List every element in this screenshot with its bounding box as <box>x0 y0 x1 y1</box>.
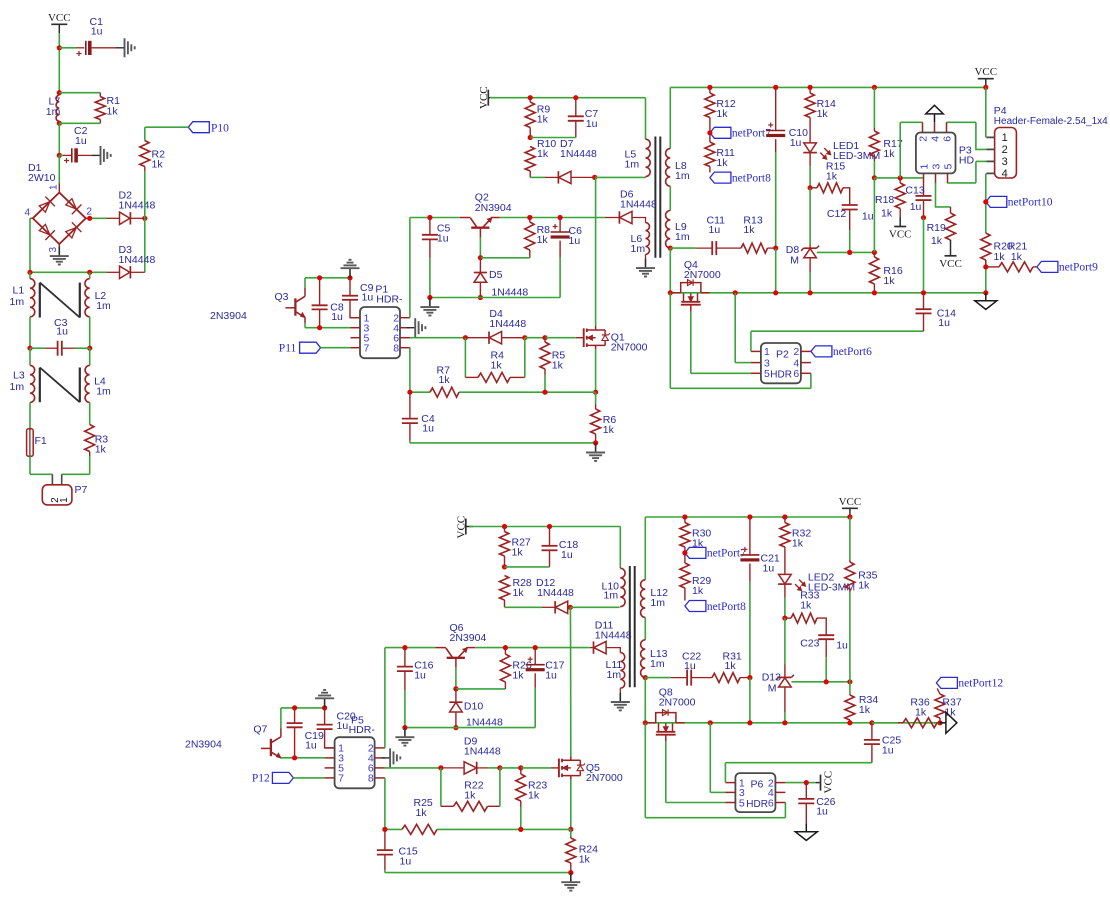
node junction <box>707 85 712 90</box>
node junction <box>87 346 92 351</box>
svg-text:L3: L3 <box>13 370 25 382</box>
svg-text:1N4448: 1N4448 <box>119 200 156 212</box>
capacitor C14 <box>916 293 957 331</box>
connector P7 <box>42 474 87 505</box>
wire <box>58 155 60 183</box>
wire <box>570 606 619 608</box>
svg-text:5: 5 <box>739 797 745 809</box>
capacitor C5 <box>422 218 451 298</box>
capacitor C1 <box>59 16 116 56</box>
node junction <box>847 514 852 519</box>
svg-text:1u: 1u <box>938 317 950 329</box>
node junction <box>528 135 533 140</box>
svg-text:1u: 1u <box>56 326 68 338</box>
svg-text:netPort6: netPort6 <box>833 346 872 358</box>
svg-text:1m: 1m <box>675 170 690 182</box>
node junction <box>747 720 752 725</box>
svg-text:R19: R19 <box>927 222 946 234</box>
resistor R33 <box>785 590 826 635</box>
svg-text:1k: 1k <box>537 148 549 160</box>
node junction <box>872 85 877 90</box>
svg-text:VCC: VCC <box>823 771 835 794</box>
svg-text:1k: 1k <box>95 444 107 456</box>
wire Q8 rail <box>645 722 940 724</box>
svg-text:1m: 1m <box>604 590 619 602</box>
power flag VCC (top-right) <box>974 66 997 87</box>
wire Q5 source <box>570 780 572 830</box>
capacitor C8 <box>312 278 344 328</box>
svg-text:3: 3 <box>48 247 59 253</box>
wire <box>30 456 52 474</box>
wire Q1 drain <box>595 177 597 326</box>
wire P3 pin2/pin6 net <box>900 122 986 178</box>
resistor R6 <box>591 392 617 443</box>
wire D8 net <box>809 188 811 245</box>
capacitor C16 <box>397 648 434 728</box>
svg-text:1N4448: 1N4448 <box>119 254 156 266</box>
ground at L11 <box>611 688 630 710</box>
transistor Q3 2N3904 <box>275 288 306 323</box>
svg-text:1u: 1u <box>882 745 894 757</box>
svg-text:1k: 1k <box>528 790 540 802</box>
svg-text:6: 6 <box>768 797 774 809</box>
svg-text:1u: 1u <box>362 292 374 304</box>
node junction <box>542 335 547 340</box>
resistor R17 <box>869 87 902 177</box>
diode D4 <box>465 308 526 344</box>
svg-text:3: 3 <box>1002 156 1008 168</box>
svg-text:Header-Female-2.54_1x4: Header-Female-2.54_1x4 <box>994 116 1108 127</box>
svg-text:1k: 1k <box>792 538 804 550</box>
ground (rotated) at C2 <box>92 146 111 165</box>
wire Q3 rail <box>305 277 350 279</box>
svg-text:L1: L1 <box>13 285 25 297</box>
diode D5 <box>474 258 529 299</box>
node junction <box>27 346 32 351</box>
node junction <box>533 645 538 650</box>
capacitor C22 <box>671 651 703 686</box>
svg-text:1k: 1k <box>883 148 895 160</box>
wire D13 net <box>784 618 786 664</box>
svg-text:C12: C12 <box>827 208 846 220</box>
svg-text:C23: C23 <box>800 638 819 650</box>
resistor R31 <box>703 651 750 683</box>
resistor R19 <box>927 207 956 256</box>
resistor R34 <box>845 682 878 723</box>
node junction <box>518 765 523 770</box>
node junction <box>568 827 573 832</box>
ground (rotated) at P5 pin4 <box>382 748 401 767</box>
wire <box>645 98 647 140</box>
node junction <box>528 95 533 100</box>
node junction <box>593 390 598 395</box>
inductor L3 <box>10 348 35 429</box>
node junction <box>782 514 787 519</box>
svg-text:1N4448: 1N4448 <box>464 746 501 758</box>
svg-text:netPort10: netPort10 <box>1008 197 1053 209</box>
resistor R13 <box>731 215 776 254</box>
svg-text:HDR-: HDR- <box>376 294 403 306</box>
node junction <box>573 95 578 100</box>
svg-text:1k: 1k <box>603 424 615 436</box>
node junction <box>453 686 458 691</box>
node junction <box>503 645 508 650</box>
connector P6 <box>725 773 785 812</box>
wire P5 pin2 riser <box>384 648 386 748</box>
wire P6 pin2 net <box>785 782 815 784</box>
wire VCC rail <box>490 97 646 99</box>
ground at C5 <box>420 298 439 316</box>
power flag VCC (bottom-right) <box>839 496 862 517</box>
wire bottom <box>410 442 596 444</box>
resistor R25 <box>402 797 437 834</box>
resistor R18 <box>875 178 905 220</box>
svg-text:1m: 1m <box>607 669 622 681</box>
fuse F1 <box>27 429 47 457</box>
resistor R36 <box>872 697 940 728</box>
value 2N3904 (Q3) <box>210 310 247 322</box>
svg-text:1u: 1u <box>561 549 573 561</box>
svg-text:P7: P7 <box>75 484 88 496</box>
svg-text:Q7: Q7 <box>253 724 267 736</box>
connector P4 <box>986 105 1108 180</box>
connector P5 <box>325 715 385 789</box>
node junction <box>463 335 468 340</box>
svg-text:D10: D10 <box>464 701 483 713</box>
zener diode D13 <box>762 664 794 723</box>
node junction <box>983 85 988 90</box>
svg-text:1: 1 <box>764 346 770 358</box>
inductor L11 <box>606 653 625 689</box>
diode D11 <box>590 620 632 654</box>
wire bottom rail <box>430 297 560 299</box>
svg-text:1m: 1m <box>46 106 61 118</box>
svg-text:1m: 1m <box>675 231 690 243</box>
wire <box>58 123 60 155</box>
resistor R21 <box>986 241 1037 272</box>
svg-text:1k: 1k <box>743 224 755 236</box>
wire top rail <box>645 516 850 518</box>
resistor R3 <box>85 425 109 457</box>
svg-text:7: 7 <box>338 773 344 785</box>
transistor Q8 2N7000 (rotated) <box>645 687 695 742</box>
ground at bridge pin3 <box>50 244 69 265</box>
svg-text:1k: 1k <box>931 235 943 247</box>
node junction <box>682 550 687 555</box>
resistor R32 <box>780 517 811 574</box>
resistor R29 <box>680 553 712 601</box>
svg-text:M: M <box>790 255 799 267</box>
inductor L12 <box>641 580 668 618</box>
svg-text:6: 6 <box>793 368 799 380</box>
node junction <box>668 290 673 295</box>
capacitor C6 (polarized) <box>551 218 582 298</box>
svg-text:1u: 1u <box>437 233 449 245</box>
svg-text:1u: 1u <box>836 640 848 652</box>
svg-text:1m: 1m <box>96 300 111 312</box>
wire Q8 gate to P6 pin5 <box>666 742 726 803</box>
node junction <box>402 725 407 730</box>
inductor L8 <box>666 149 690 187</box>
wire to gate <box>521 767 551 769</box>
wire <box>645 677 671 679</box>
connector P1 <box>351 284 411 359</box>
net port netPort9 <box>1037 261 1098 273</box>
capacitor C18 <box>505 527 579 567</box>
wire <box>144 218 146 272</box>
svg-text:P2: P2 <box>776 348 789 360</box>
node junction <box>57 45 62 50</box>
svg-text:1k: 1k <box>512 547 524 559</box>
node junction <box>438 765 443 770</box>
resistor R1 <box>59 93 120 124</box>
wire pin6 net <box>410 337 465 339</box>
wire Q6 rail <box>385 647 590 649</box>
node junction <box>782 720 787 725</box>
node junction <box>502 524 507 529</box>
node junction <box>643 675 648 680</box>
capacitor C3 <box>30 317 90 356</box>
wire D10 rail <box>405 727 535 729</box>
svg-text:VCC: VCC <box>974 66 997 78</box>
wire Q4 gate to P2 pin5 <box>691 312 751 373</box>
transistor Q4 2N7000 (rotated) <box>670 259 721 312</box>
svg-text:M: M <box>768 683 777 695</box>
node junction <box>747 514 752 519</box>
wire <box>669 87 671 148</box>
svg-text:1u: 1u <box>545 670 557 682</box>
zener diode D8 <box>786 244 819 293</box>
svg-text:1k: 1k <box>915 707 927 719</box>
wire <box>305 323 351 328</box>
wire <box>669 248 671 293</box>
node junction <box>347 275 352 280</box>
ground (rotated) at P1 pin4 <box>407 318 426 337</box>
node junction <box>317 325 322 330</box>
svg-text:VCC: VCC <box>839 496 862 508</box>
wire P4 pin4 riser <box>985 173 987 292</box>
svg-text:HDR: HDR <box>746 799 768 810</box>
svg-text:1k: 1k <box>464 790 476 802</box>
svg-text:1u: 1u <box>684 660 696 672</box>
wire Q1 source <box>595 349 597 392</box>
svg-text:1m: 1m <box>631 243 646 255</box>
connector P3 <box>916 122 975 183</box>
wire C25 to P6 pin1 <box>725 763 872 783</box>
wire R7 rail <box>410 391 596 393</box>
node junction <box>497 765 502 770</box>
capacitor C23 <box>800 635 848 682</box>
svg-text:1k: 1k <box>491 360 503 372</box>
capacitor C13 <box>905 183 931 217</box>
svg-text:1u: 1u <box>790 137 802 149</box>
inductor L1 <box>10 272 35 348</box>
wire <box>749 678 751 723</box>
node junction <box>847 720 852 725</box>
svg-text:1k: 1k <box>716 108 728 120</box>
wire VCC rail <box>469 526 620 528</box>
net port netPort6 <box>811 346 872 358</box>
transformer core T3 <box>655 137 660 258</box>
wire bottom rail <box>670 292 986 294</box>
svg-text:1k: 1k <box>725 660 737 672</box>
svg-text:1k: 1k <box>817 108 829 120</box>
wire P5 pin8 riser <box>384 778 386 830</box>
svg-text:4: 4 <box>929 136 941 142</box>
wire <box>644 617 646 639</box>
svg-text:VCC: VCC <box>478 86 490 109</box>
wire <box>293 777 324 779</box>
wire <box>669 186 671 210</box>
wire <box>321 347 351 349</box>
svg-text:1k: 1k <box>716 157 728 169</box>
wire <box>30 271 90 273</box>
LED LED2 <box>778 572 855 619</box>
svg-text:1N4448: 1N4448 <box>466 717 503 729</box>
node junction <box>57 90 62 95</box>
capacitor C7 <box>530 98 598 138</box>
inductor L6 <box>631 223 650 255</box>
svg-text:1k: 1k <box>800 600 812 612</box>
svg-text:P6: P6 <box>751 778 764 790</box>
resistor R28 <box>500 576 532 608</box>
svg-text:1m: 1m <box>625 159 640 171</box>
svg-text:P12: P12 <box>252 773 270 785</box>
node junction <box>547 524 552 529</box>
port P10 <box>188 122 229 135</box>
node junction <box>869 720 874 725</box>
wire mid rail <box>874 177 923 179</box>
svg-text:HDR-: HDR- <box>349 724 376 736</box>
svg-text:1: 1 <box>918 164 930 170</box>
svg-text:1k: 1k <box>537 114 549 126</box>
svg-text:netPort9: netPort9 <box>1059 262 1098 274</box>
node junction <box>87 216 92 221</box>
power flag VCC (down, at R19) <box>939 256 962 270</box>
wire Q5 drain <box>569 607 571 756</box>
svg-text:2N3904: 2N3904 <box>450 632 487 644</box>
transistor Q2 2N3904 <box>460 192 512 238</box>
svg-text:4: 4 <box>25 208 31 219</box>
inductor L5 <box>625 139 651 177</box>
svg-text:6: 6 <box>941 136 953 142</box>
wire P6 pin3 riser <box>710 723 725 793</box>
node junction <box>558 215 563 220</box>
net port netPort8 <box>710 172 771 184</box>
transistor Q6 2N3904 <box>436 622 487 668</box>
wire Q7 rail <box>281 707 325 709</box>
svg-text:1u: 1u <box>709 224 721 236</box>
connector P2 <box>751 343 811 383</box>
svg-text:1m: 1m <box>96 386 111 398</box>
svg-text:R18: R18 <box>875 194 894 206</box>
wire <box>500 767 521 769</box>
node junction <box>921 215 926 220</box>
svg-text:1k: 1k <box>439 374 451 386</box>
net port netPort10 <box>986 196 1053 208</box>
capacitor C17 (polarized) <box>526 648 565 728</box>
svg-text:1u: 1u <box>91 26 103 38</box>
svg-text:1N4448: 1N4448 <box>560 148 597 160</box>
wire <box>62 456 90 474</box>
transformer core T1 <box>40 283 80 318</box>
resistor R20 <box>981 233 1013 267</box>
capacitor C4 <box>402 392 435 443</box>
wire <box>304 278 306 288</box>
node junction <box>402 645 407 650</box>
inductor L9 <box>666 211 690 249</box>
node junction <box>568 870 573 875</box>
capacitor C11 <box>696 215 731 256</box>
node junction <box>708 720 713 725</box>
node junction <box>808 185 813 190</box>
node junction <box>824 679 829 684</box>
capacitor C26 <box>798 783 835 826</box>
resistor R5 <box>540 338 565 393</box>
antenna symbol at P3 pin4 <box>926 105 944 122</box>
wire <box>595 176 646 178</box>
node junction <box>568 605 573 610</box>
resistor R16 <box>869 252 902 292</box>
resistor R7 <box>430 365 459 398</box>
svg-text:netPort7: netPort7 <box>732 128 771 140</box>
diode D3 <box>90 244 156 279</box>
resistor R24 <box>566 837 598 873</box>
resistor R15 <box>810 161 850 205</box>
wire <box>570 829 572 836</box>
node junction <box>527 215 532 220</box>
net port netPort7 (2) <box>685 547 746 559</box>
transistor Q5 2N7000 <box>551 756 623 784</box>
node junction <box>921 290 926 295</box>
wire <box>281 757 325 759</box>
resistor R9 <box>525 98 550 138</box>
node junction <box>643 720 648 725</box>
svg-text:8: 8 <box>393 343 399 355</box>
node junction <box>847 679 852 684</box>
node junction <box>322 705 327 710</box>
wire <box>644 517 646 580</box>
capacitor C12 <box>827 205 874 252</box>
svg-text:P10: P10 <box>211 122 229 134</box>
wire P3 pin5 net <box>948 161 987 183</box>
resistor R22 <box>441 768 500 811</box>
value 2N3904 (Q7) <box>185 739 222 751</box>
wire C11 row <box>670 247 695 249</box>
diode D7 <box>530 138 597 184</box>
node junction <box>782 616 787 621</box>
node junction <box>808 290 813 295</box>
node junction <box>773 85 778 90</box>
svg-text:HD: HD <box>959 155 975 167</box>
inductor L4 <box>85 348 111 424</box>
wire P2 pin3 riser <box>735 293 751 363</box>
node junction <box>542 390 547 395</box>
wire <box>280 708 282 728</box>
resistor R27 <box>500 527 531 567</box>
svg-text:1: 1 <box>59 497 70 503</box>
svg-text:1u: 1u <box>816 806 828 818</box>
inductor L2 <box>85 272 111 348</box>
node junction <box>518 827 523 832</box>
svg-text:1k: 1k <box>512 670 524 682</box>
svg-text:VCC: VCC <box>889 229 912 241</box>
capacitor C25 <box>864 723 901 763</box>
svg-text:1m: 1m <box>10 296 25 308</box>
svg-text:1k: 1k <box>692 585 704 597</box>
net port netPort8 (2) <box>685 601 746 613</box>
svg-text:5: 5 <box>764 368 770 380</box>
